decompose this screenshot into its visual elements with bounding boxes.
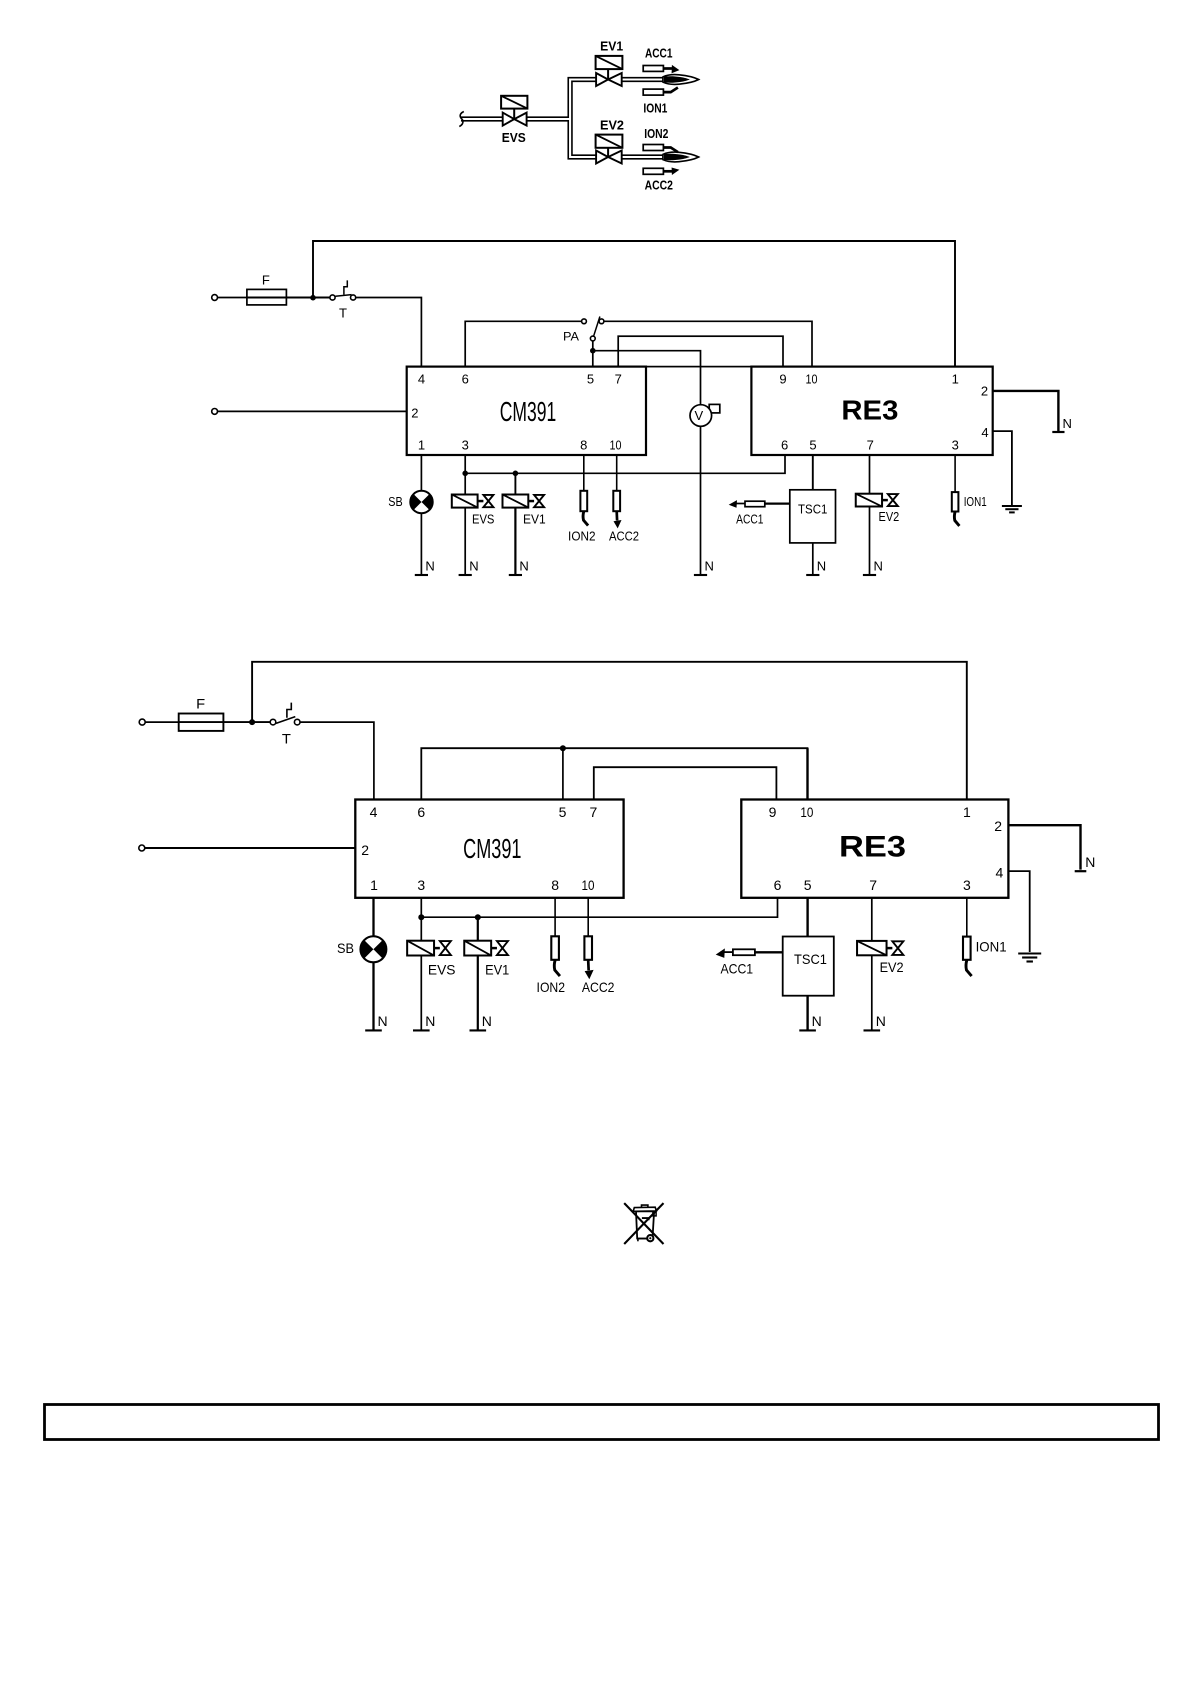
svg-text:N: N — [705, 559, 714, 574]
svg-text:7: 7 — [590, 804, 598, 820]
sch2 junction dot pin3 — [418, 914, 424, 920]
svg-text:5: 5 — [804, 877, 812, 893]
burner 2 flame — [663, 152, 699, 162]
sch1 switch T blade — [335, 295, 351, 297]
WEEE bin body — [636, 1211, 654, 1238]
svg-text:ACC2: ACC2 — [609, 529, 639, 544]
valve EV1 (pipe): bowtie body — [596, 73, 608, 86]
sch1 valve feed bus pin3 — [464, 455, 466, 495]
sch2 valve EV2 — [857, 941, 887, 955]
svg-text:3: 3 — [462, 438, 469, 453]
valve EVS (pipe): bowtie body — [503, 113, 515, 126]
sch2 EVS N terminal — [413, 1029, 430, 1031]
sch1 fan V flag — [709, 404, 720, 413]
svg-text:10: 10 — [800, 804, 813, 820]
WEEE cross — [624, 1203, 663, 1244]
WEEE bin handle — [642, 1205, 648, 1207]
sch1 wire lamp to N — [420, 513, 422, 575]
svg-text:4: 4 — [418, 372, 425, 387]
svg-text:CM391: CM391 — [500, 396, 557, 427]
electrode ACC1 (pipe) — [643, 66, 663, 72]
svg-text:EV1: EV1 — [523, 512, 546, 527]
svg-text:N: N — [876, 1013, 886, 1029]
WEEE bin hinge — [653, 1212, 656, 1216]
valve EV1 (pipe): solenoid box — [596, 56, 623, 69]
svg-text:EVS: EVS — [428, 962, 456, 978]
sch2 bridge pin7 to pin9 — [594, 767, 777, 799]
sch2 CM391 box — [355, 800, 623, 898]
svg-text:ION2: ION2 — [568, 529, 596, 544]
valve EV2 (pipe): bowtie body — [596, 151, 608, 164]
sch1 earth ground — [1002, 505, 1022, 507]
svg-text:CM391: CM391 — [463, 833, 521, 864]
sch1 EV1 N terminal — [509, 574, 522, 576]
valve EVS (pipe): solenoid box — [501, 96, 527, 109]
sch1 terminal L2 — [212, 409, 218, 415]
svg-text:T: T — [339, 306, 347, 321]
svg-text:PA: PA — [563, 330, 579, 344]
svg-text:1: 1 — [952, 372, 959, 387]
svg-text:ACC1: ACC1 — [736, 512, 763, 527]
sch1 top wire L to RE3 pin1 — [313, 241, 955, 367]
sch1 wire RE3 pin7 to EV2 — [869, 455, 871, 494]
sch1 wire RE3 pin4 to earth — [993, 431, 1012, 505]
sch1 RE3 box — [751, 367, 992, 455]
sch2 wire TSC1 to N — [806, 996, 808, 1031]
sch2 wire pin5 stem — [562, 748, 564, 799]
sch1 wire tap to EV1 — [514, 473, 516, 494]
svg-text:5: 5 — [559, 804, 567, 820]
svg-text:7: 7 — [869, 877, 877, 893]
sch2 wire RE3 pin7 to EV2 — [871, 898, 873, 941]
svg-text:N: N — [425, 559, 434, 574]
svg-text:10: 10 — [806, 372, 818, 387]
svg-text:2: 2 — [361, 842, 369, 858]
sch1 wire EV1 to N — [514, 508, 516, 575]
svg-text:5: 5 — [587, 372, 594, 387]
sch1 pressure switch PA contacts — [582, 319, 587, 324]
WEEE bin inner mark — [642, 1218, 649, 1220]
svg-text:ACC2: ACC2 — [582, 979, 615, 995]
svg-text:6: 6 — [781, 438, 788, 453]
svg-text:4: 4 — [370, 804, 378, 820]
svg-text:EV2: EV2 — [600, 117, 624, 132]
svg-text:TSC1: TSC1 — [798, 502, 827, 517]
sch1 junction dot EV1 tap — [513, 471, 519, 477]
sch2 wire CM391 pin1 to lamp — [372, 898, 374, 936]
sch2 electrode ACC1 — [733, 949, 755, 955]
sch1 wire fan to N — [700, 426, 702, 575]
sch2 TSC1 box — [783, 937, 834, 996]
sch1 electrode ION1 — [952, 492, 959, 511]
WEEE bin axle and foot — [637, 1238, 647, 1240]
empty note box — [45, 1405, 1159, 1440]
svg-text:1: 1 — [370, 877, 378, 893]
svg-text:T: T — [282, 731, 291, 747]
sch2 pin10 riser thick — [806, 748, 808, 799]
sch2 wire TSC1 to ACC1 — [755, 951, 783, 953]
svg-text:4: 4 — [981, 425, 988, 440]
svg-text:EV1: EV1 — [485, 962, 509, 978]
sch2 signal lamp SB — [360, 936, 386, 962]
svg-text:TSC1: TSC1 — [794, 951, 827, 967]
sch2 switch T actuator — [287, 703, 291, 718]
sch1 wire RE3 pin2 to N — [993, 391, 1059, 431]
svg-text:2: 2 — [411, 406, 418, 421]
sch2 electrode ACC2 — [584, 936, 592, 960]
sch2 fuse F — [179, 721, 270, 723]
sch1 wire TSC1 to ACC1 — [765, 503, 790, 505]
sch1 TSC1 N terminal — [806, 574, 819, 576]
svg-text:3: 3 — [417, 877, 425, 893]
sch2 RE3 box — [741, 800, 1008, 898]
svg-text:2: 2 — [994, 818, 1002, 834]
sch2 EV2 N terminal — [864, 1029, 881, 1031]
sch1 EV2 N terminal — [863, 574, 876, 576]
sch1 wire RE3 pin5 to TSC1 — [812, 455, 814, 490]
sch2 electrode ION1 — [963, 937, 971, 960]
svg-text:SB: SB — [337, 940, 354, 956]
sch1 fan N terminal — [694, 574, 707, 576]
WEEE bin lid — [633, 1207, 656, 1211]
svg-text:10: 10 — [610, 438, 622, 453]
valve EV2 (pipe): solenoid box — [596, 135, 623, 148]
svg-text:2: 2 — [981, 383, 988, 398]
sch2 wire pin10 to ACC2 — [587, 898, 589, 937]
sch1 wire pin10 to ACC2 — [616, 455, 618, 491]
sch2 wire EV2 to N — [871, 955, 873, 1030]
sch2 EV1 N terminal — [470, 1029, 487, 1031]
svg-text:N: N — [812, 1013, 822, 1029]
sch2 valve EVS — [407, 941, 434, 956]
svg-text:ION1: ION1 — [976, 938, 1007, 954]
sch2 earth ground — [1018, 952, 1041, 954]
electrode ION1 (pipe) — [643, 89, 663, 95]
svg-text:3: 3 — [963, 877, 971, 893]
svg-text:4: 4 — [996, 865, 1004, 881]
sch2 junction dot EV1 tap — [475, 914, 481, 920]
pipe inner white — [570, 80, 596, 158]
sch1 switch T contacts — [330, 295, 335, 300]
sch1 wire EV2 to N — [869, 507, 871, 576]
svg-text:N: N — [469, 559, 478, 574]
sch2 junction dot at fuse/switch — [249, 719, 255, 725]
sch1 terminal L1 — [212, 295, 218, 301]
sch1 wire PA to pin5 with junction — [592, 341, 594, 367]
electrode ION2 (pipe) — [643, 145, 663, 151]
sch2 wire RE3 pin5 to TSC1 — [806, 898, 808, 937]
sch2 terminal L2 — [139, 845, 145, 851]
svg-text:8: 8 — [580, 438, 587, 453]
sch1 pin2 N terminal — [1052, 431, 1064, 433]
sch1 bridge pin7 to pin9 — [618, 336, 783, 366]
WEEE bin wheel — [647, 1235, 653, 1241]
svg-text:6: 6 — [417, 804, 425, 820]
sch1 wire TSC1 to N — [812, 543, 814, 575]
svg-text:N: N — [1085, 854, 1095, 870]
svg-text:N: N — [874, 559, 883, 574]
sch1 valve EVS — [452, 495, 478, 508]
sch1 switch T actuator — [344, 280, 347, 294]
sch1 EVS N terminal — [459, 574, 472, 576]
sch2 valve feed bus pin3 — [420, 898, 422, 941]
sch2 wire EV1 to N — [477, 956, 479, 1031]
svg-text:V: V — [694, 408, 703, 423]
sch2 wire pin6 to pin10 — [421, 748, 807, 799]
svg-text:N: N — [378, 1013, 388, 1029]
sch1 fuse F — [247, 297, 330, 299]
sch1 PA blade — [594, 317, 600, 337]
sch2 wire lamp to N — [372, 962, 374, 1030]
sch2 electrode ION2 — [551, 936, 559, 960]
svg-text:6: 6 — [774, 877, 782, 893]
svg-text:F: F — [196, 696, 205, 712]
sch1 junction dot at fuse/switch — [310, 295, 316, 301]
svg-text:5: 5 — [809, 438, 816, 453]
svg-text:10: 10 — [582, 877, 595, 893]
sch2 wire switch to CM391 pin4 — [300, 722, 374, 799]
sch2 wire RE3 pin4 to earth — [1008, 871, 1029, 952]
svg-text:N: N — [519, 559, 528, 574]
sch1 wire RE3 pin3 to ION1 — [954, 455, 956, 492]
svg-text:7: 7 — [615, 372, 622, 387]
sch2 wire EVS to N — [420, 956, 422, 1031]
svg-text:6: 6 — [462, 372, 469, 387]
sch1 wire junction to fan V — [593, 351, 701, 405]
sch1 TSC1 box — [790, 490, 836, 543]
svg-text:3: 3 — [952, 438, 959, 453]
svg-text:ION1: ION1 — [964, 494, 987, 509]
sch1 electrode ACC1 — [745, 501, 765, 507]
sch1 junction dot pin3 — [462, 471, 468, 477]
sch2 junction dot pin5 — [560, 745, 566, 751]
sch2 terminal L1 — [139, 719, 145, 725]
svg-text:ACC2: ACC2 — [645, 178, 673, 193]
svg-text:EV2: EV2 — [880, 959, 904, 975]
gas supply pipe with break squiggle, double-line piping — [570, 80, 596, 158]
svg-text:N: N — [1063, 416, 1072, 431]
svg-text:ACC1: ACC1 — [645, 46, 673, 61]
svg-text:1: 1 — [963, 804, 971, 820]
svg-text:1: 1 — [418, 438, 425, 453]
sch1 wire CM391 pin1 to lamp — [420, 455, 422, 491]
svg-text:SB: SB — [388, 494, 402, 509]
sch1 lamp N terminal — [415, 574, 428, 576]
svg-text:N: N — [817, 559, 826, 574]
pipe break squiggle — [459, 112, 464, 127]
sch1 signal lamp SB — [410, 491, 432, 513]
sch1 wire switch to CM391 pin4 — [356, 298, 422, 367]
sch1 wire pin6 to PA — [465, 321, 581, 366]
burner 1 flame — [663, 75, 699, 85]
svg-text:EVS: EVS — [502, 130, 526, 145]
sch1 electrode ION2 — [580, 491, 587, 511]
sch2 switch T contacts — [270, 719, 276, 725]
svg-text:RE3: RE3 — [839, 831, 906, 864]
svg-text:8: 8 — [551, 877, 559, 893]
sch1 wire EVS to N — [464, 508, 466, 575]
sch1 wire pin8 to ION2 — [583, 455, 585, 491]
svg-text:ION2: ION2 — [537, 979, 566, 995]
svg-text:9: 9 — [769, 804, 777, 820]
svg-text:7: 7 — [867, 438, 874, 453]
sch1 wire PA to RE3 pin10 — [604, 321, 812, 366]
svg-text:EVS: EVS — [472, 512, 495, 527]
sch1 valve EV2 — [856, 494, 882, 507]
sch2 top wire L to RE3 pin1 — [252, 662, 967, 800]
svg-text:9: 9 — [779, 372, 786, 387]
sch1 CM391 box — [407, 367, 646, 455]
sch2 wire RE3 pin2 to N — [1008, 825, 1080, 869]
sch2 switch T blade — [276, 717, 295, 724]
sch2 pin2 N terminal — [1075, 870, 1087, 872]
svg-text:ACC1: ACC1 — [720, 961, 753, 977]
sch2 lamp N terminal — [365, 1029, 382, 1031]
sch1 valve EV1 — [503, 495, 529, 508]
sch2 wire pin8 to ION2 — [554, 898, 556, 937]
svg-text:N: N — [425, 1013, 435, 1029]
svg-text:EV1: EV1 — [600, 39, 623, 54]
svg-text:N: N — [482, 1013, 492, 1029]
svg-text:ION2: ION2 — [644, 126, 668, 141]
svg-text:EV2: EV2 — [879, 509, 900, 524]
svg-text:RE3: RE3 — [841, 394, 898, 425]
sch2 wire tap to EV1 — [477, 917, 479, 941]
sch2 TSC1 N terminal — [799, 1029, 816, 1031]
sch1 electrode ACC2 — [613, 491, 620, 511]
svg-text:F: F — [262, 273, 270, 288]
sch2 wire RE3 pin3 to ION1 — [966, 898, 968, 937]
sch2 valve EV1 — [464, 941, 491, 956]
sch1 fan V circle — [690, 405, 712, 427]
electrode ACC2 (pipe) — [643, 168, 663, 174]
svg-text:ION1: ION1 — [643, 101, 667, 116]
